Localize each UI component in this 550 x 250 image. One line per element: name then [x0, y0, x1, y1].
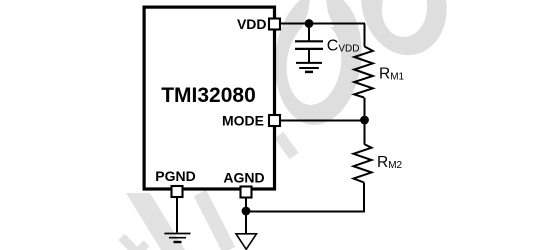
- svg-text:PGND: PGND: [155, 168, 195, 184]
- svg-text:AGND: AGND: [223, 170, 264, 186]
- svg-text:TMI32080: TMI32080: [161, 84, 256, 107]
- svg-text:VDD: VDD: [237, 16, 267, 32]
- svg-text:MODE: MODE: [222, 113, 264, 129]
